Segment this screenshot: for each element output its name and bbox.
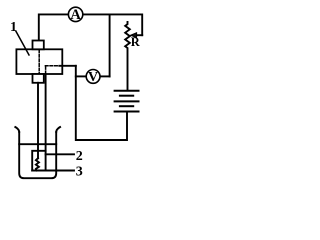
svg-text:R: R (131, 35, 141, 49)
svg-text:1: 1 (10, 20, 17, 35)
svg-text:3: 3 (76, 164, 83, 179)
svg-text:2: 2 (76, 149, 83, 164)
svg-text:A: A (70, 7, 81, 23)
svg-text:V: V (88, 70, 98, 85)
